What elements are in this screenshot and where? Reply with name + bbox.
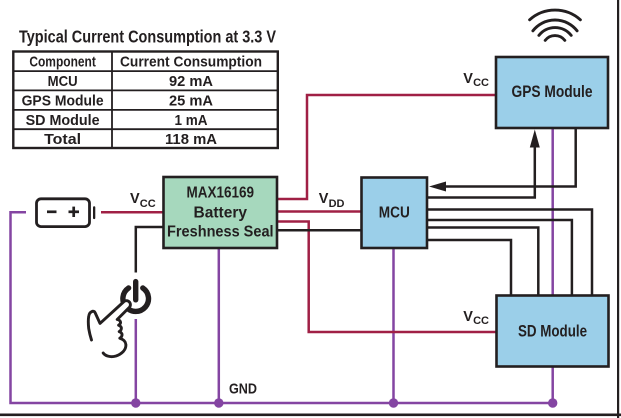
wire: MCU to GPS module with arrow (black) xyxy=(427,147,535,198)
wire: MAX16169 to MCU (black signal) xyxy=(277,229,362,232)
wire: SD module GND (purple) xyxy=(551,367,554,404)
svg-text:118 mA: 118 mA xyxy=(165,131,217,148)
svg-text:GPS Module: GPS Module xyxy=(22,93,104,110)
wire: MCU to SD module line 4 (black) xyxy=(427,240,511,296)
svg-text:CC: CC xyxy=(140,198,156,210)
pushbutton SW1 (power symbol) xyxy=(123,282,149,312)
label VCC (GPS) xyxy=(463,71,489,89)
svg-text:GPS Module: GPS Module xyxy=(512,83,593,101)
frame: right border xyxy=(617,0,619,418)
battery BT1 xyxy=(37,199,96,227)
wire: MCU GND (purple) xyxy=(392,248,395,403)
wire: MCU to SD module line 2 (black) xyxy=(427,220,572,296)
wire: MAX16169 to pushbutton (black) xyxy=(136,227,164,273)
svg-text:Current Consumption: Current Consumption xyxy=(120,54,262,71)
table text xyxy=(22,54,262,149)
arrowhead into GPS module xyxy=(530,130,540,148)
wire: MAX16169 to MCU VDD (crimson) xyxy=(277,210,362,213)
svg-text:GND: GND xyxy=(229,381,257,398)
svg-text:25 mA: 25 mA xyxy=(169,93,213,110)
antenna / radio waves icon above GPS xyxy=(530,10,581,40)
GND rail (purple) with battery negative wire xyxy=(11,212,553,403)
svg-text:MCU: MCU xyxy=(48,73,78,90)
svg-text:V: V xyxy=(319,191,329,207)
svg-text:MAX16169: MAX16169 xyxy=(187,185,255,202)
junction dot: MCU/GND xyxy=(389,398,398,407)
wire: MCU to SD module line 1 (black) xyxy=(427,210,592,296)
svg-text:Total: Total xyxy=(44,131,81,148)
wire: MAX16169 to GPS module VCC (crimson) xyxy=(277,95,496,199)
wire: MAX16169 GND (purple) xyxy=(218,248,221,403)
svg-text:CC: CC xyxy=(473,315,489,327)
svg-text:Typical Current Consumption at: Typical Current Consumption at 3.3 V xyxy=(19,27,276,47)
frame: bottom border xyxy=(0,414,621,417)
svg-text:DD: DD xyxy=(329,198,345,210)
svg-text:SD Module: SD Module xyxy=(26,112,100,129)
svg-text:MCU: MCU xyxy=(379,205,410,222)
svg-text:Freshness Seal: Freshness Seal xyxy=(167,224,274,241)
wire: pushbutton to GND rail (purple) xyxy=(135,319,138,403)
svg-text:V: V xyxy=(463,71,473,87)
hand pressing button (white fill under-layer) xyxy=(88,301,130,357)
wire: battery to MAX16169 VCC (crimson) xyxy=(101,211,164,214)
wire: MCU to SD module line 3 (black) xyxy=(427,228,538,296)
wire: GPS module GND down to SD module (purple) xyxy=(551,128,554,296)
svg-text:SD Module: SD Module xyxy=(518,323,587,341)
label VDD (MCU) xyxy=(319,191,345,210)
svg-text:92 mA: 92 mA xyxy=(169,73,213,90)
junction dot: SD/GND xyxy=(548,398,557,407)
svg-text:1 mA: 1 mA xyxy=(175,112,208,129)
junction dot: button/GND xyxy=(131,398,140,407)
block U1 MAX16169 Battery Freshness Seal xyxy=(164,177,278,248)
junction dot: MAX16169/GND xyxy=(214,398,223,407)
svg-text:Battery: Battery xyxy=(194,205,248,222)
block GPS Module xyxy=(496,57,608,128)
svg-text:CC: CC xyxy=(473,77,489,89)
wire: GPS module to MCU with arrow (black) xyxy=(445,128,576,187)
svg-text:V: V xyxy=(130,191,140,207)
block MCU xyxy=(362,178,428,249)
arrowhead into MCU xyxy=(429,182,446,192)
table title xyxy=(19,27,276,47)
block SD Module xyxy=(497,296,609,367)
svg-text:Component: Component xyxy=(29,54,96,71)
wire: MAX16169 to SD module VCC (crimson) xyxy=(277,222,497,333)
table: typical current consumption xyxy=(13,52,278,149)
label VCC (battery) xyxy=(130,191,156,210)
hand pressing button (outline) xyxy=(88,301,130,357)
label VCC (SD) xyxy=(463,309,489,327)
svg-text:V: V xyxy=(463,309,473,325)
